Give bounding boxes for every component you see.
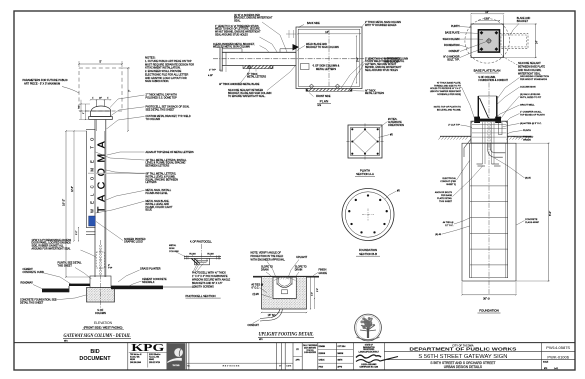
svg-text:ELEVATION: ELEVATION <box>94 321 113 325</box>
svg-text:GRADE: GRADE <box>319 272 328 275</box>
svg-text:ANCHOR BOLTS: ANCHOR BOLTS <box>435 191 453 194</box>
svg-text:METAL LETTERS: METAL LETTERS <box>247 76 267 79</box>
svg-text:FLUSH: FLUSH <box>207 253 214 255</box>
svg-text:(4) #4 TIES @ 3" O.C.: (4) #4 TIES @ 3" O.C. <box>520 123 542 125</box>
svg-text:PWK-01006: PWK-01006 <box>547 354 569 359</box>
svg-text:SEE DETAIL THIS SHEET: SEE DETAIL THIS SHEET <box>146 109 175 112</box>
svg-text:GRAPHIC LOGO: GRAPHIC LOGO <box>124 241 143 244</box>
svg-text:TYP: TYP <box>108 268 113 270</box>
svg-text:CONDUIT: CONDUIT <box>248 324 260 327</box>
svg-text:BOLT, TYP.: BOLT, TYP. <box>447 58 459 61</box>
svg-text:SIGN: SIGN <box>169 248 175 250</box>
svg-text:CERTIFICATE NO. 1286: CERTIFICATE NO. 1286 <box>359 366 378 369</box>
svg-text:BASE PLATE: BASE PLATE <box>445 32 460 35</box>
svg-text:PLATE DETAIL: PLATE DETAIL <box>437 197 453 200</box>
svg-text:1'-2": 1'-2" <box>76 230 78 235</box>
svg-text:BACK SIDE: BACK SIDE <box>307 22 320 25</box>
svg-text:GATEWAY SIGN COLUMN - DETAIL: GATEWAY SIGN COLUMN - DETAIL <box>64 334 131 339</box>
svg-text:POLISHED S.S. DOME TOP: POLISHED S.S. DOME TOP <box>146 97 178 100</box>
svg-text:NOTE: TOP OF PLINTH TO: NOTE: TOP OF PLINTH TO <box>434 106 462 108</box>
svg-text:DOCUMENT: DOCUMENT <box>79 356 111 362</box>
svg-text:ART PIECE - 5' X 5' MAXIMUM: ART PIECE - 5' X 5' MAXIMUM <box>24 82 60 86</box>
svg-text:LENGTH SCREWS: LENGTH SCREWS <box>192 286 214 289</box>
svg-text:NUTS, SIZED TO FIT: NUTS, SIZED TO FIT <box>520 97 542 99</box>
svg-text:CONDUIT: CONDUIT <box>449 50 460 53</box>
svg-text:(8) #5: (8) #5 <box>525 178 531 180</box>
svg-text:℄ OF PHOTOCELL: ℄ OF PHOTOCELL <box>189 240 212 243</box>
svg-text:CONCRETE: CONCRETE <box>525 219 538 221</box>
svg-text:PHOTOCELL SECTION: PHOTOCELL SECTION <box>186 294 216 298</box>
svg-text:METAL LETTERS: METAL LETTERS <box>365 92 385 95</box>
svg-text:FLUSH: FLUSH <box>189 253 196 255</box>
svg-text:206.286.1640: 206.286.1640 <box>130 362 141 364</box>
svg-text:AROUND FOR WATERTIGHT SEAL: AROUND FOR WATERTIGHT SEAL <box>32 248 72 251</box>
svg-text:FINISHED: FINISHED <box>523 137 534 139</box>
svg-text:DEPARTMENT OF PUBLIC WORKS: DEPARTMENT OF PUBLIC WORKS <box>409 347 517 353</box>
svg-text:THREAD AND SIZE TO FIT: THREAD AND SIZE TO FIT <box>434 84 462 87</box>
svg-text:℄ OF SIGN COLUMN &: ℄ OF SIGN COLUMN & <box>312 64 340 67</box>
svg-text:3131 Elliott Av: 3131 Elliott Av <box>149 353 160 356</box>
svg-text:SHEET 2): SHEET 2) <box>446 184 456 186</box>
svg-text:2" CLR TYP: 2" CLR TYP <box>448 124 460 126</box>
svg-text:⅛" THICK ANODIZED METAL BLADE: ⅛" THICK ANODIZED METAL BLADE <box>219 83 260 86</box>
svg-text:⅜" THICK BASE PLATE,: ⅜" THICK BASE PLATE, <box>437 82 462 85</box>
svg-text:METAL LETTERS: METAL LETTERS <box>316 68 336 71</box>
svg-text:DATE: DATE <box>286 364 292 367</box>
svg-text:FRONT SIDE: FRONT SIDE <box>316 95 331 98</box>
svg-text:GROUT WELL: GROUT WELL <box>520 105 535 107</box>
svg-text:14": 14" <box>325 31 329 34</box>
svg-text:PLINTH: PLINTH <box>451 25 460 28</box>
svg-text:FOUNDATION & CONDUIT: FOUNDATION & CONDUIT <box>479 79 509 82</box>
svg-text:10": 10" <box>99 97 102 99</box>
svg-text:COLUMN: COLUMN <box>95 312 106 315</box>
svg-text:DETAIL THIS SHEET: DETAIL THIS SHEET <box>20 301 44 304</box>
svg-text:(8) GALV LEVELING: (8) GALV LEVELING <box>520 93 541 96</box>
svg-text:WITH ½" ROUNDED EDGES: WITH ½" ROUNDED EDGES <box>365 23 397 27</box>
svg-text:WATERTIGHT SEAL.: WATERTIGHT SEAL. <box>518 72 541 75</box>
svg-text:OCT 2014: OCT 2014 <box>338 346 346 348</box>
svg-text:SMTH: SMTH <box>338 360 344 362</box>
svg-text:GRADE: GRADE <box>523 139 531 142</box>
svg-text:COLUMN SIGN: COLUMN SIGN <box>520 87 536 89</box>
svg-text:THIS SHEET: THIS SHEET <box>439 201 453 203</box>
svg-text:FOUNDATION: FOUNDATION <box>444 44 460 47</box>
svg-text:16'-2": 16'-2" <box>61 199 65 206</box>
svg-text:13.5": 13.5" <box>484 18 490 21</box>
svg-text:BETWEEN LETTERS: BETWEEN LETTERS <box>146 165 170 168</box>
svg-text:SIGN FABRICATION.: SIGN FABRICATION. <box>145 80 169 83</box>
svg-text:CLASS 4000P: CLASS 4000P <box>525 221 540 224</box>
svg-text:METAL: METAL <box>169 244 177 247</box>
svg-text:LANDSCAPE ARCHITECT: LANDSCAPE ARCHITECT <box>359 350 379 353</box>
svg-text:FOUNDATION: FOUNDATION <box>479 309 499 313</box>
svg-text:APPD: APPD <box>338 365 343 368</box>
svg-text:SIDEWALK: SIDEWALK <box>142 281 155 284</box>
svg-text:ORIENTATION: ORIENTATION <box>388 124 404 127</box>
svg-text:14": 14" <box>485 11 489 14</box>
svg-text:6" O.C.: 6" O.C. <box>252 287 260 290</box>
svg-text:SIGN COLUMN: SIGN COLUMN <box>443 38 460 41</box>
svg-text:BASE PLATE PLAN: BASE PLATE PLAN <box>474 69 501 73</box>
svg-text:S 56TH STREET GATEWAY SIGN: S 56TH STREET GATEWAY SIGN <box>418 354 507 360</box>
svg-text:WITH ENGINEER APPROVAL.: WITH ENGINEER APPROVAL. <box>251 258 286 261</box>
svg-text:SCREWS (4 PER SIDE): SCREWS (4 PER SIDE) <box>437 94 461 96</box>
svg-text:NTS: NTS <box>544 368 547 370</box>
svg-text:(4) #3: (4) #3 <box>253 293 260 296</box>
svg-text:UPLIGHT FOOTING DETAIL: UPLIGHT FOOTING DETAIL <box>259 333 314 338</box>
svg-text:SEAL.: SEAL. <box>234 20 241 23</box>
svg-text:36" ∅: 36" ∅ <box>483 297 491 301</box>
svg-text:1'-3": 1'-3" <box>311 292 313 296</box>
svg-text:JULIE A. WILLIAMS: JULIE A. WILLIAMS <box>361 363 377 366</box>
svg-text:ROADWAY: ROADWAY <box>21 281 34 284</box>
svg-text:CONDUIT (PER: CONDUIT (PER <box>440 181 456 183</box>
svg-text:PER BASE: PER BASE <box>441 194 452 197</box>
svg-text:PER WSDOT STANDARDS: PER WSDOT STANDARDS <box>520 78 548 81</box>
svg-text:TACOMA: TACOMA <box>97 136 108 213</box>
svg-text:14": 14" <box>536 40 539 44</box>
svg-text:Tacoma, WA: Tacoma, WA <box>149 356 160 359</box>
svg-text:GRASS PLANTER: GRASS PLANTER <box>140 267 161 270</box>
svg-text:253.627.0720: 253.627.0720 <box>149 362 160 364</box>
svg-text:NO.: NO. <box>187 365 191 367</box>
svg-text:SECTION B-B: SECTION B-B <box>359 252 377 256</box>
svg-text:PW14-0587S: PW14-0587S <box>546 345 570 350</box>
svg-text:DRAIN: DRAIN <box>261 269 269 272</box>
svg-text:SEAL AROUND STUD HOLES: SEAL AROUND STUD HOLES <box>215 34 248 37</box>
svg-text:12'-6": 12'-6" <box>72 186 74 192</box>
svg-text:APR: APR <box>296 359 301 362</box>
svg-text:PLAN: PLAN <box>320 99 329 103</box>
svg-text:MW/JM: MW/JM <box>338 353 344 355</box>
svg-text:ELECTRICAL: ELECTRICAL <box>443 177 457 180</box>
svg-text:2'-0": 2'-0" <box>317 288 319 292</box>
svg-text:1" CHAMFER ON ALL: 1" CHAMFER ON ALL <box>520 111 542 114</box>
svg-text:Seattle, WA: Seattle, WA <box>130 356 140 359</box>
svg-text:PARAMETERS FOR FUTURE PUBLIC: PARAMETERS FOR FUTURE PUBLIC <box>23 78 68 82</box>
svg-text:URBAN DESIGN DETAILS: URBAN DESIGN DETAILS <box>444 365 482 369</box>
svg-text:WELD TO METAL SIGN COLUMN: WELD TO METAL SIGN COLUMN <box>213 46 250 49</box>
svg-text:12" O.C.: 12" O.C. <box>445 225 454 227</box>
svg-text:HOLES TO RECEIVE ⅝" X 4 1": HOLES TO RECEIVE ⅝" X 4 1" <box>430 87 461 90</box>
svg-text:6'-0": 6'-0" <box>548 211 552 216</box>
svg-text:AND BLADE: AND BLADE <box>384 61 399 64</box>
svg-text:SEAL AROUND STUD HOLES: SEAL AROUND STUD HOLES <box>365 69 398 72</box>
svg-text:1-800-424-5555: 1-800-424-5555 <box>304 352 316 354</box>
svg-text:UPLIGHT: UPLIGHT <box>296 256 307 259</box>
svg-text:PLUMB AND LEVEL: PLUMB AND LEVEL <box>146 192 169 195</box>
svg-text:BLUE: BLUE <box>146 209 153 212</box>
svg-text:BRACKET TO SIGN COLUMN: BRACKET TO SIGN COLUMN <box>306 46 339 49</box>
svg-text:7⅞": 7⅞" <box>78 105 81 109</box>
svg-text:BE LEVEL AND PLUMB.: BE LEVEL AND PLUMB. <box>437 108 462 111</box>
svg-text:NOTES:: NOTES: <box>145 56 156 60</box>
svg-text:(FRONT SIDE / WEST FACING): (FRONT SIDE / WEST FACING) <box>84 325 123 329</box>
svg-text:SECTION A-A: SECTION A-A <box>356 172 374 176</box>
svg-text:PROJ: PROJ <box>319 366 324 368</box>
svg-text:GROUNDING CONNECTION: GROUNDING CONNECTION <box>520 76 549 78</box>
svg-text:DESIGN: DESIGN <box>319 353 326 355</box>
svg-text:LETTERS: LETTERS <box>146 181 157 184</box>
svg-text:R E V I S I O N S: R E V I S I O N S <box>223 366 240 368</box>
svg-text:TO ENSURE WATERTIGHT SEAL.: TO ENSURE WATERTIGHT SEAL. <box>228 95 266 98</box>
svg-text:4.25": 4.25" <box>208 75 213 77</box>
svg-text:BRACKET: BRACKET <box>517 20 529 23</box>
svg-text:#4 TIES @: #4 TIES @ <box>443 222 454 224</box>
svg-text:DRAWN: DRAWN <box>319 345 326 348</box>
svg-text:(8) #5: (8) #5 <box>435 234 441 236</box>
svg-text:1 of 1: 1 of 1 <box>554 368 558 370</box>
svg-text:DRAIN: DRAIN <box>295 269 303 272</box>
svg-text:LENGTH TAMPER RESISTANT: LENGTH TAMPER RESISTANT <box>430 90 462 93</box>
svg-text:BID: BID <box>90 349 99 355</box>
svg-text:TOP EDGES OF PLINTH: TOP EDGES OF PLINTH <box>520 115 545 117</box>
svg-text:THIS SHEET: THIS SHEET <box>58 265 73 268</box>
svg-text:ALIGN AT TOP EDGE OF METAL LET: ALIGN AT TOP EDGE OF METAL LETTERS <box>146 151 195 154</box>
svg-text:TO COLUMN: TO COLUMN <box>146 118 161 121</box>
svg-text:3": 3" <box>108 265 110 267</box>
svg-text:753 9th Ave N: 753 9th Ave N <box>130 353 142 356</box>
svg-text:TACOMA: TACOMA <box>172 364 180 367</box>
svg-text:3'-6": 3'-6" <box>357 57 360 62</box>
svg-text:CONCRETE CURB: CONCRETE CURB <box>23 271 45 274</box>
svg-text:PLINTH: PLINTH <box>523 130 531 132</box>
svg-text:1" TYP: 1" TYP <box>209 70 216 72</box>
svg-text:CHECK: CHECK <box>319 360 326 362</box>
